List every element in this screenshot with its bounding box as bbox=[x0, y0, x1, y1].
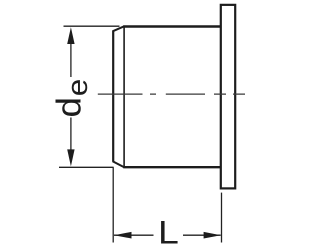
de dimension line lower segment bbox=[70, 118, 72, 150]
de bottom extension line bbox=[59, 166, 114, 168]
L left extension line bbox=[112, 167, 114, 242]
centerline bbox=[98, 93, 245, 95]
de arrow down bbox=[67, 149, 74, 166]
chamfer inner edge bbox=[123, 26, 125, 167]
body top edge bbox=[123, 25, 221, 27]
top chamfer bbox=[113, 26, 125, 31]
body bottom edge bbox=[123, 166, 221, 168]
de top extension line bbox=[64, 25, 120, 27]
svg-text:e: e bbox=[62, 79, 94, 97]
svg-text:d: d bbox=[50, 97, 88, 118]
de dimension line upper segment bbox=[70, 43, 72, 77]
L arrow right bbox=[204, 232, 221, 239]
flange (head plate of rivet nut) bbox=[221, 5, 235, 189]
label L bbox=[158, 215, 179, 250]
L dimension line right segment bbox=[183, 234, 221, 236]
body left edge bbox=[112, 31, 114, 162]
bottom chamfer bbox=[113, 161, 125, 167]
de arrow up bbox=[67, 27, 74, 44]
L right extension line bbox=[221, 193, 223, 243]
svg-text:L: L bbox=[158, 215, 179, 250]
L dimension line left segment bbox=[114, 234, 154, 236]
L arrow left bbox=[114, 232, 132, 239]
